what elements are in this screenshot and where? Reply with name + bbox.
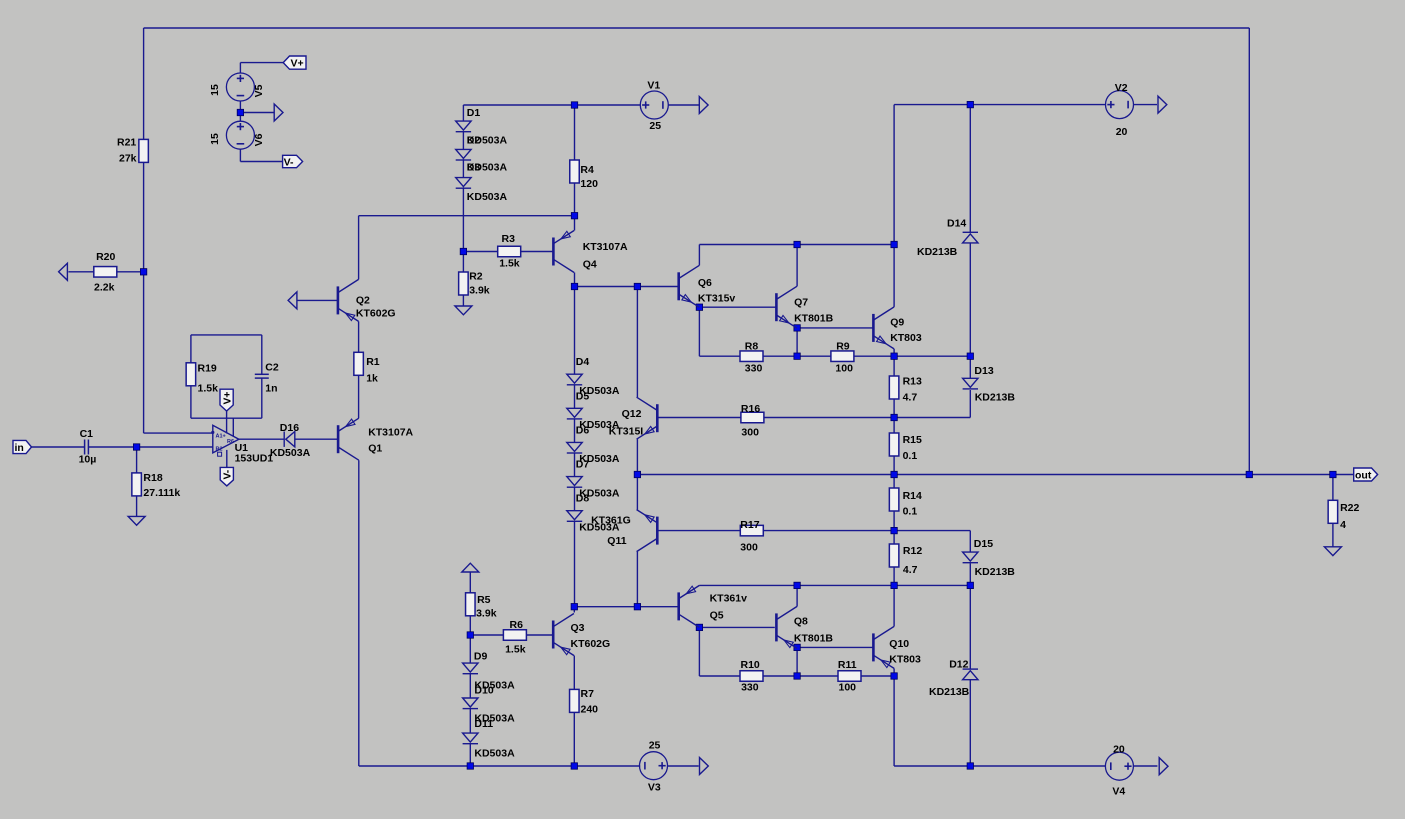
label 10u: [79, 454, 97, 466]
wire Q7 collector stub: [796, 245, 798, 287]
svg-text:V5: V5: [253, 84, 265, 97]
svg-text:R6: R6: [227, 439, 234, 445]
label 1.5k R3: [499, 258, 520, 270]
label 15 V6: [209, 133, 221, 145]
voltage source V4: [1105, 752, 1133, 780]
junction node (894.1,530.6): [891, 527, 897, 533]
wire D14 to rail: [969, 243, 971, 356]
resistor R10: [740, 671, 763, 682]
label 20 V2: [1116, 126, 1128, 138]
svg-text:KT3107A: KT3107A: [583, 241, 628, 253]
wire comp loop bottom: [191, 417, 262, 419]
junction node (637.4,606.7): [634, 604, 640, 610]
wire V6 bottom: [239, 149, 241, 161]
label 120: [580, 178, 598, 190]
junction node (470.3,635): [467, 632, 473, 638]
label R20: [96, 251, 115, 263]
wire node to R12: [893, 531, 895, 544]
label R5: [477, 594, 491, 606]
transistor Q11: [637, 510, 658, 552]
label KD503A D5: [579, 419, 620, 431]
label KT361v: [710, 593, 748, 605]
svg-text:4.7: 4.7: [903, 564, 918, 576]
resistor R9: [831, 351, 854, 362]
diode D15: [963, 552, 978, 563]
wire gnd to Q2 base: [297, 299, 338, 301]
wire Q10 collector stub: [893, 585, 895, 626]
label 20 V4: [1113, 743, 1125, 755]
label R22: [1340, 502, 1359, 514]
wire V3 to arrow: [668, 765, 699, 767]
label KD503A D7: [579, 487, 620, 499]
diode D3: [456, 178, 471, 189]
svg-text:KT803: KT803: [889, 654, 921, 666]
label 3.9k R5: [476, 608, 497, 620]
label 100 R9: [835, 362, 853, 374]
svg-text:V+: V+: [291, 58, 304, 70]
svg-text:4.7: 4.7: [903, 392, 918, 404]
label R18: [143, 472, 162, 484]
label 0.1 R14: [903, 506, 918, 518]
svg-text:2.2k: 2.2k: [94, 282, 115, 294]
label KD503A D10: [474, 713, 515, 725]
junction node (894.1,356.2): [891, 353, 897, 359]
svg-text:R16: R16: [741, 403, 760, 415]
wire R6 to Q3 base: [526, 634, 553, 636]
junction node (797.1,585.4): [794, 582, 800, 588]
wire bottom rail right: [894, 765, 1106, 767]
wire arrow to R5: [469, 572, 471, 592]
wire V4 to arrow: [1134, 765, 1158, 767]
svg-text:R11: R11: [838, 659, 857, 671]
svg-text:R15: R15: [903, 434, 922, 446]
voltage source V3: [640, 752, 668, 780]
wire in to C1: [32, 446, 85, 448]
label KT361G: [591, 514, 631, 526]
wire to gnd arrow: [240, 112, 274, 114]
svg-text:Q7: Q7: [794, 297, 808, 309]
svg-text:KD213B: KD213B: [975, 566, 1016, 578]
label Q12: [622, 408, 642, 420]
svg-text:KD213B: KD213B: [917, 246, 958, 258]
wire out to R22: [1332, 475, 1334, 501]
transistor Q3: [553, 614, 574, 656]
junction node (1249.3,474.5): [1246, 471, 1252, 477]
diode D2: [456, 149, 471, 160]
flag in: [13, 440, 32, 454]
junction node (1332.9,474.5): [1330, 471, 1336, 477]
label 4.7 R12: [903, 564, 918, 576]
label V3: [648, 782, 661, 794]
svg-text:V1: V1: [647, 79, 660, 91]
wire Q10 emitter stub: [893, 668, 895, 676]
wire Q2 collector up: [358, 216, 360, 280]
wire to Q7 base: [699, 306, 776, 308]
wire to Q12 collector: [636, 287, 638, 398]
svg-text:100: 100: [835, 362, 853, 374]
svg-text:Q2: Q2: [356, 295, 370, 307]
ground below R18: [128, 516, 145, 525]
svg-text:R7: R7: [581, 688, 595, 700]
svg-text:KD503A: KD503A: [579, 487, 620, 499]
wire R19 top: [190, 335, 192, 363]
wire D5-D6: [574, 419, 576, 443]
svg-text:R5: R5: [477, 594, 491, 606]
diode D16: [284, 432, 295, 447]
wire D12 bottom stub: [969, 680, 971, 766]
svg-text:KT803: KT803: [890, 332, 922, 344]
wire node to D15 head: [894, 530, 970, 532]
junction node (970.3,356.2): [967, 353, 973, 359]
wire Q2 emitter to R1: [358, 321, 360, 352]
svg-text:A1+: A1+: [216, 434, 226, 440]
svg-text:R2: R2: [216, 447, 223, 453]
label R14: [903, 490, 922, 502]
wire to opamp +in: [144, 432, 213, 434]
wire top rail: [144, 27, 1250, 29]
resistor R11: [838, 671, 861, 682]
svg-text:Q4: Q4: [583, 259, 597, 271]
wire to V1: [575, 104, 641, 106]
capacitor C2: [255, 374, 269, 378]
svg-text:KT361v: KT361v: [710, 593, 748, 605]
wire R1 to Q1: [358, 375, 360, 418]
svg-text:out: out: [1355, 469, 1372, 481]
wire D16 to Q1 base: [295, 438, 338, 440]
wire to R4: [574, 105, 576, 160]
svg-text:0.1: 0.1: [903, 506, 918, 518]
label R15: [903, 434, 922, 446]
label D1: [467, 107, 481, 119]
label KT3107A Q1: [368, 427, 413, 439]
junction node (894.1,676): [891, 673, 897, 679]
wire V1 rail left: [463, 104, 574, 106]
wire to Q9 base: [797, 327, 873, 329]
wire D8 to node: [574, 521, 576, 606]
svg-text:27k: 27k: [119, 152, 137, 164]
wire Q10 emitter down: [893, 676, 895, 766]
wire Q5 collector drop: [698, 627, 700, 676]
transistor Q5: [679, 585, 700, 627]
svg-text:Q1: Q1: [368, 443, 382, 455]
wire comp loop top: [191, 334, 262, 336]
arrow V1: [699, 97, 708, 114]
diode D13: [963, 378, 978, 389]
svg-text:Q3: Q3: [571, 622, 585, 634]
wire comp drop to opamp: [232, 418, 234, 436]
wire to R13: [893, 356, 895, 376]
svg-text:D13: D13: [974, 365, 993, 377]
junction node (574.5,286.5): [571, 283, 577, 289]
label 4: [1340, 519, 1346, 531]
label R11: [838, 659, 857, 671]
label Q3: [571, 622, 585, 634]
svg-text:KT315v: KT315v: [698, 293, 736, 305]
svg-text:KD213B: KD213B: [929, 686, 970, 698]
transistor Q1: [338, 418, 359, 460]
wire node to D9: [469, 635, 471, 663]
label 1.5k R19: [198, 382, 219, 394]
label 300 R16: [741, 427, 759, 439]
resistor R20: [94, 267, 117, 278]
flag V-: [283, 155, 303, 168]
junction node (970.3,585.4): [967, 582, 973, 588]
svg-text:4: 4: [1340, 519, 1346, 531]
diode D14: [963, 232, 978, 243]
label D10: [474, 684, 493, 696]
svg-text:R12: R12: [903, 545, 922, 557]
transistor Q10: [873, 626, 894, 668]
junction node (894.1,585.4): [891, 582, 897, 588]
label U1: [235, 442, 249, 454]
label KD503A D16: [270, 447, 311, 459]
diode D10: [463, 698, 478, 709]
label D11: [474, 718, 493, 730]
junction node (797.1,327.9): [794, 325, 800, 331]
wire R14 to node: [893, 511, 895, 531]
label 100 R11: [839, 682, 857, 694]
resistor R19: [186, 363, 196, 386]
ground left of Q2: [288, 292, 297, 309]
junction node (970.3,766): [967, 763, 973, 769]
svg-text:120: 120: [580, 178, 598, 190]
wire D15 to rail: [969, 563, 971, 585]
arrow above R5: [462, 563, 479, 572]
svg-text:3.9k: 3.9k: [469, 284, 490, 296]
wire lower rail: [699, 584, 970, 586]
svg-text:1k: 1k: [366, 372, 378, 384]
label Q8: [794, 616, 808, 628]
label KT315v: [698, 293, 736, 305]
wire out to R14: [893, 475, 895, 489]
junction node (637.4,474.5): [634, 471, 640, 477]
wire to Q10 base: [797, 646, 873, 648]
label Q5: [710, 609, 724, 621]
capacitor C1: [85, 440, 89, 455]
label V2: [1115, 82, 1128, 94]
wire node to R3: [463, 251, 497, 253]
wire V2 to arrow: [1134, 104, 1158, 106]
svg-text:V6: V6: [253, 133, 265, 146]
wire V- flag stem: [226, 450, 228, 468]
svg-text:R18: R18: [143, 472, 162, 484]
label Q7: [794, 297, 808, 309]
ground below R22: [1324, 547, 1341, 556]
transistor Q8: [776, 606, 797, 648]
wire to Q5 base: [574, 606, 678, 608]
svg-text:330: 330: [745, 362, 763, 374]
svg-text:D1: D1: [467, 107, 481, 119]
voltage source V1: [640, 91, 668, 119]
label R4: [580, 164, 594, 176]
junction node (797.1,356.2): [794, 353, 800, 359]
svg-text:15: 15: [209, 133, 221, 145]
wire D12 top stub: [969, 585, 971, 669]
resistor R21: [139, 139, 149, 162]
transistor Q12: [637, 397, 658, 439]
svg-text:C1: C1: [80, 428, 94, 440]
wire R2 to gnd: [462, 295, 464, 306]
diode D6: [567, 442, 582, 453]
wire D7-D8: [574, 487, 576, 511]
label R2: [469, 270, 483, 282]
wire D6-D7: [574, 453, 576, 477]
label R10: [741, 659, 760, 671]
svg-text:15: 15: [209, 84, 221, 96]
voltage source V5: [226, 73, 254, 101]
transistor Q7: [776, 286, 797, 328]
junction node (574.5,105): [571, 102, 577, 108]
junction node (470.3,766): [467, 763, 473, 769]
diode D12: [963, 669, 978, 680]
wire V1 to arrow: [668, 104, 699, 106]
junction node (797.1,676): [794, 673, 800, 679]
svg-text:D12: D12: [949, 659, 968, 671]
resistor R2: [459, 272, 469, 295]
diode D8: [567, 511, 582, 522]
svg-text:V3: V3: [648, 782, 661, 794]
label 153UD1: [235, 452, 274, 464]
label R7: [581, 688, 595, 700]
svg-text:Q9: Q9: [890, 316, 904, 328]
label D8: [576, 493, 590, 505]
wire R19 bottom: [190, 386, 192, 418]
svg-text:KT801B: KT801B: [794, 312, 834, 324]
junction node (894.1,244.5): [891, 241, 897, 247]
svg-text:Q8: Q8: [794, 616, 808, 628]
label C1: [80, 428, 94, 440]
wire R17 line: [657, 530, 894, 532]
label D16: [280, 422, 299, 434]
resistor R22: [1328, 500, 1338, 523]
flag V- opamp: [220, 467, 233, 486]
junction node (463.4,251.5): [460, 248, 466, 254]
diode D1: [456, 121, 471, 132]
wire Q4 collector to node: [574, 273, 576, 287]
wire C1 to opamp -in: [89, 446, 213, 448]
label R6: [510, 619, 524, 631]
label Q10: [889, 638, 909, 650]
svg-text:R19: R19: [198, 363, 217, 375]
ground left of R20: [59, 263, 68, 280]
wire V5 top stub: [239, 63, 241, 73]
wire node to Q4 emitter: [574, 216, 576, 231]
wire Q6 emitter drop: [698, 307, 700, 356]
svg-text:D16: D16: [280, 422, 299, 434]
label KD503A D6: [579, 453, 620, 465]
wire Q11 collector down: [636, 552, 638, 607]
label D5: [576, 390, 590, 402]
label KD213B D15: [975, 566, 1016, 578]
diode D11: [463, 733, 478, 744]
ground below R2: [455, 306, 472, 315]
wire V2 rail drop: [893, 105, 895, 245]
label 240: [581, 704, 599, 716]
label D2: [467, 135, 481, 147]
wire Q12 emitter to out: [636, 439, 638, 474]
wire Q9 collector stub: [893, 245, 895, 307]
label 15 V5: [209, 84, 221, 96]
svg-text:R10: R10: [741, 659, 760, 671]
svg-text:R3: R3: [502, 233, 516, 245]
label KD213B D12: [929, 686, 970, 698]
label V4: [1112, 786, 1125, 798]
wire C2 bottom: [261, 378, 263, 418]
svg-text:KD213B: KD213B: [975, 392, 1016, 404]
voltage source V2: [1106, 91, 1134, 119]
label 27k: [119, 152, 137, 164]
diode D5: [567, 408, 582, 419]
label V1: [647, 79, 660, 91]
svg-text:D11: D11: [474, 718, 493, 730]
label R21: [117, 137, 136, 149]
label C2: [265, 362, 279, 374]
resistor R18: [132, 473, 142, 496]
wire D3 to node: [462, 187, 464, 251]
wire V6 to V- flag: [240, 161, 282, 163]
wire D10-D11: [469, 709, 471, 734]
svg-text:25: 25: [649, 120, 661, 132]
label Q6: [698, 277, 712, 289]
svg-text:KD503A: KD503A: [474, 748, 515, 760]
wire R16 line: [657, 417, 894, 419]
transistor Q2: [338, 279, 359, 321]
svg-text:300: 300: [741, 427, 759, 439]
svg-text:R4: R4: [580, 164, 594, 176]
label 1n: [265, 382, 277, 394]
flag V+: [283, 56, 306, 70]
label KT803 Q9: [890, 332, 922, 344]
wire Q3 collector stub: [573, 607, 575, 613]
junction node (574.3,606.7): [571, 604, 577, 610]
svg-text:C2: C2: [265, 362, 279, 374]
svg-text:25: 25: [649, 740, 661, 752]
svg-text:Q11: Q11: [607, 535, 626, 547]
svg-text:D4: D4: [576, 356, 590, 368]
wire R21 top: [143, 28, 145, 139]
label Q9: [890, 316, 904, 328]
label D15: [974, 538, 993, 550]
wire R20 to node: [115, 271, 143, 273]
resistor R12: [889, 544, 899, 567]
label 25 V1: [649, 120, 661, 132]
svg-text:KT602G: KT602G: [356, 307, 396, 319]
wire node to R2: [462, 252, 464, 273]
junction node (574.3,766): [571, 763, 577, 769]
resistor R5: [466, 593, 476, 616]
wire R8R9 rail: [699, 355, 970, 357]
label KT602G Q2: [356, 307, 396, 319]
label R16: [741, 403, 760, 415]
label KD503A D11: [474, 748, 515, 760]
wire R13 to node: [893, 399, 895, 418]
wire node to D4: [574, 287, 576, 375]
svg-text:R21: R21: [117, 137, 136, 149]
svg-text:300: 300: [740, 542, 758, 554]
svg-text:27.111k: 27.111k: [143, 487, 180, 499]
svg-text:R6: R6: [510, 619, 524, 631]
label R9: [836, 341, 850, 353]
svg-text:KD503A: KD503A: [467, 191, 508, 203]
flag out: [1354, 468, 1378, 481]
svg-text:R2: R2: [469, 270, 483, 282]
label KD503A D8: [579, 522, 620, 534]
junction node (240.4,112.5): [237, 109, 243, 115]
label D3: [467, 161, 481, 173]
svg-text:Q5: Q5: [710, 609, 724, 621]
transistor Q4: [553, 231, 574, 273]
svg-text:KT801B: KT801B: [794, 632, 834, 644]
